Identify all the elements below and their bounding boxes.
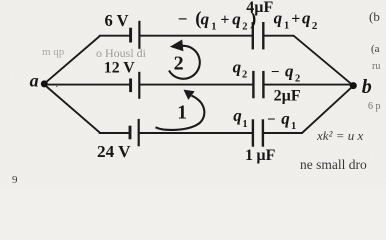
wire middle (battery to capacitor) [139, 84, 253, 86]
svg-text:b: b [362, 76, 372, 98]
capacitor C2 2uF [253, 71, 263, 98]
svg-text:(a: (a [371, 43, 380, 55]
svg-text:xk² = u x: xk² = u x [316, 128, 363, 143]
wire bottom right horizontal [263, 132, 303, 134]
wire top middle (battery to capacitor) [139, 35, 253, 37]
battery V3 24V [130, 119, 139, 146]
wire bottom-right diagonal to b [302, 86, 353, 133]
node a [41, 80, 48, 87]
svg-text:·: · [55, 81, 59, 93]
battery V2 12V [131, 72, 140, 99]
wire top-right diagonal to b [294, 36, 354, 86]
svg-text:1: 1 [177, 103, 187, 124]
wire middle capacitor to b [263, 84, 353, 86]
wire a to top-left bend [44, 36, 100, 84]
svg-text:ne small dro: ne small dro [300, 157, 367, 172]
battery V1 6V [131, 21, 140, 49]
loop 1 arrow [156, 90, 205, 130]
svg-text:1µF: 1µF [245, 147, 276, 164]
svg-text:9: 9 [12, 174, 18, 186]
svg-text:ru: ru [372, 61, 380, 72]
wire top-left horizontal [99, 35, 131, 37]
svg-text:(b: (b [369, 9, 380, 24]
capacitor C3 1uF [253, 119, 263, 146]
svg-text:4µF: 4µF [246, 0, 273, 16]
wire a to bottom-left bend [44, 85, 100, 133]
svg-text:24 V: 24 V [97, 142, 131, 161]
wire a to middle battery [44, 84, 130, 86]
capacitor C1 4uF [253, 22, 263, 49]
loop 2 arrow [169, 40, 200, 79]
svg-text:12 V: 12 V [104, 60, 135, 77]
svg-text:6 V: 6 V [105, 11, 129, 30]
svg-text:2µF: 2µF [274, 88, 301, 105]
wire bottom middle (battery to capacitor) [139, 132, 253, 134]
wire top right horizontal [263, 35, 294, 37]
wire bottom-left horizontal [99, 132, 131, 134]
svg-text:m qp: m qp [42, 46, 65, 58]
svg-text:2: 2 [174, 52, 184, 74]
svg-text:6 p: 6 p [368, 101, 381, 112]
svg-text:a: a [30, 70, 39, 90]
node b [350, 82, 357, 89]
